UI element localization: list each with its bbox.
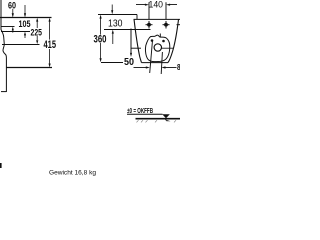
- left edge glyph fragment: [0, 163, 2, 168]
- dimension 60: [8, 0, 16, 32]
- overflow tick: [159, 34, 161, 38]
- side view bottom line: [6, 67, 52, 69]
- side view 225 reference line: [2, 44, 40, 46]
- level annotation underline: [127, 113, 163, 115]
- dimension 140: [136, 0, 177, 11]
- supply centerline vertical: [130, 29, 132, 53]
- left jet hole: [151, 39, 154, 42]
- drain circle: [154, 44, 161, 51]
- floor line: [136, 118, 181, 120]
- supply arrow: [130, 53, 132, 57]
- svg-text:225: 225: [31, 27, 43, 38]
- bottom dimension extension right: [161, 52, 162, 74]
- 130 lower reference line: [104, 29, 151, 31]
- svg-text:8: 8: [177, 63, 180, 72]
- svg-text:Gewicht 16,8 kg: Gewicht 16,8 kg: [49, 170, 96, 177]
- right fixing hole centerline: [165, 2, 167, 28]
- floor hatching: [137, 120, 177, 122]
- supply branch line: [131, 47, 141, 49]
- svg-text:360: 360: [94, 33, 107, 45]
- left fixing hole cross arm: [146, 24, 153, 26]
- right edge leader: [177, 24, 181, 26]
- level marker triangle: [162, 114, 170, 118]
- right fixing hole: [164, 23, 168, 27]
- 50 leader line: [101, 62, 123, 64]
- bottom dimension extension left: [150, 42, 153, 74]
- svg-text:60: 60: [8, 0, 16, 10]
- dimension 415: [44, 18, 57, 68]
- side view 105 reference line: [1, 31, 30, 33]
- top view rear corner vertical: [136, 15, 138, 20]
- side view 60 reference line: [2, 26, 15, 28]
- right fixing hole cross arm: [163, 24, 170, 26]
- bowl rim outline: [145, 35, 169, 62]
- svg-text:130: 130: [108, 18, 123, 29]
- right jet hole: [162, 40, 165, 43]
- side view top surface line: [0, 17, 52, 19]
- dimension 360: [94, 15, 107, 63]
- left fixing hole centerline: [148, 2, 150, 28]
- dimension 225: [31, 18, 43, 44]
- svg-text:105: 105: [19, 19, 31, 29]
- dimension 130: [108, 5, 123, 45]
- side view front profile wall line: [1, 0, 6, 92]
- level marker under tick: [165, 119, 171, 121]
- top view rear extension line: [98, 14, 137, 16]
- svg-text:50: 50: [124, 57, 134, 68]
- section line: [162, 47, 174, 49]
- wall line end tick: [1, 91, 6, 93]
- top view right side: [168, 20, 179, 63]
- left fixing hole: [147, 23, 151, 27]
- bottom dimension: [134, 63, 181, 72]
- top view left side: [134, 19, 142, 63]
- dimension 105: [19, 5, 31, 38]
- top view bottom edge: [142, 62, 169, 64]
- svg-text:140: 140: [149, 0, 164, 11]
- top view rear edge: [134, 18, 181, 20]
